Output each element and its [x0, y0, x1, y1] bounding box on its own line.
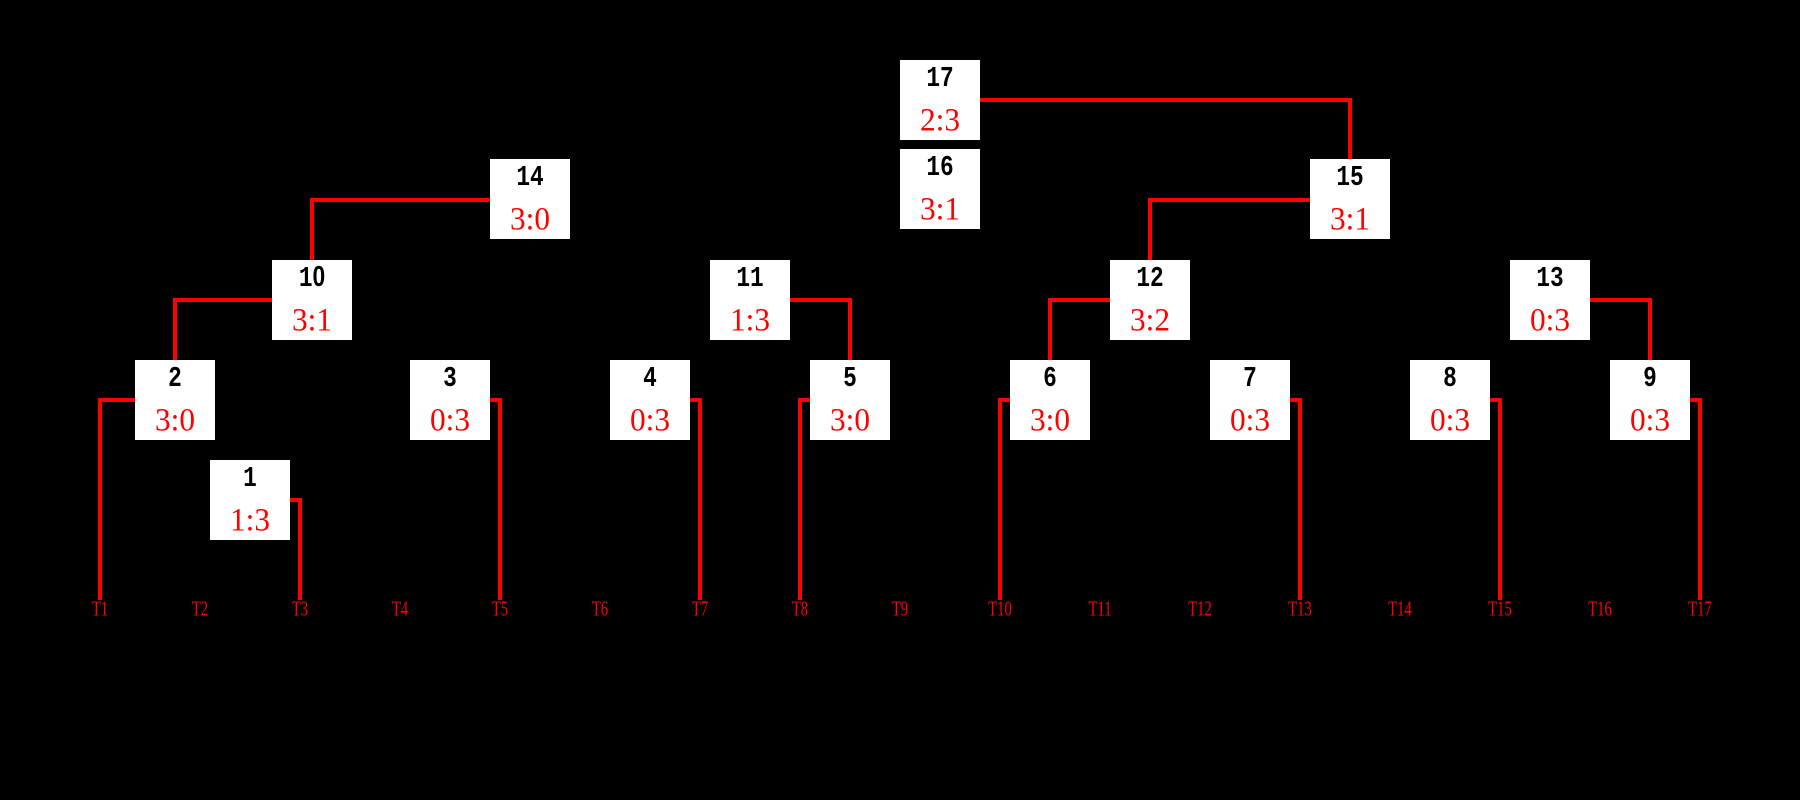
wire match11 to match5 vertical — [848, 298, 852, 360]
match box 8 — [1410, 360, 1490, 440]
wire match2 to T1 vertical — [98, 398, 102, 600]
svg-text:T11: T11 — [1088, 597, 1111, 620]
svg-text:10: 10 — [299, 262, 325, 295]
wire match9 to T17 horizontal — [1690, 398, 1702, 402]
svg-text:T12: T12 — [1188, 597, 1212, 620]
svg-text:7: 7 — [1243, 363, 1257, 395]
wire match5 to T8 vertical — [798, 398, 802, 600]
wire match6 to T10 horizontal — [998, 398, 1010, 402]
match box 15 — [1310, 159, 1390, 239]
svg-text:9: 9 — [1643, 363, 1657, 395]
match box 7 — [1210, 360, 1290, 440]
svg-text:14: 14 — [516, 162, 543, 194]
svg-text:8: 8 — [1443, 363, 1457, 395]
wire match14 to match10 vertical — [310, 198, 314, 260]
match box 16 — [900, 149, 980, 229]
wire match2 to T1 horizontal — [98, 398, 135, 402]
match box 12 — [1110, 260, 1190, 340]
svg-text:3:0: 3:0 — [830, 401, 870, 438]
svg-text:T1: T1 — [92, 597, 108, 620]
svg-text:3:1: 3:1 — [920, 190, 960, 227]
match box 4 — [610, 360, 690, 440]
wire match14 to match10 horizontal — [310, 198, 490, 202]
svg-text:0:3: 0:3 — [430, 401, 470, 438]
wire match12 to match6 horizontal — [1048, 298, 1110, 302]
svg-text:2:3: 2:3 — [920, 101, 960, 138]
svg-text:3:1: 3:1 — [1330, 200, 1370, 237]
svg-text:3:1: 3:1 — [292, 301, 332, 338]
match box 14 — [490, 159, 570, 239]
svg-text:0:3: 0:3 — [630, 401, 670, 438]
svg-text:T9: T9 — [892, 597, 908, 620]
wire match13 to match9 vertical — [1648, 298, 1652, 360]
svg-text:T10: T10 — [988, 597, 1012, 620]
match box 17 — [900, 60, 980, 140]
svg-text:11: 11 — [736, 263, 763, 295]
svg-text:T4: T4 — [392, 597, 408, 620]
match box 9 — [1610, 360, 1690, 440]
svg-text:3:0: 3:0 — [155, 401, 195, 438]
svg-text:3:2: 3:2 — [1130, 301, 1170, 338]
svg-text:17: 17 — [926, 63, 953, 95]
wire match4 to T7 horizontal — [690, 398, 702, 402]
svg-text:T2: T2 — [192, 597, 208, 620]
wire match3 to T5 vertical — [498, 398, 502, 600]
wire match5 to T8 horizontal — [798, 398, 810, 402]
wire match4 to T7 vertical — [698, 398, 702, 600]
svg-text:T6: T6 — [592, 597, 608, 620]
wire match1 to T3 vertical — [298, 498, 302, 600]
svg-text:T3: T3 — [292, 597, 308, 620]
wire match13 to match9 horizontal — [1590, 298, 1652, 302]
match box 2 — [135, 360, 215, 440]
svg-text:5: 5 — [843, 363, 857, 395]
svg-text:1:3: 1:3 — [230, 501, 270, 538]
svg-text:0:3: 0:3 — [1230, 401, 1270, 438]
svg-text:0:3: 0:3 — [1430, 401, 1470, 438]
wire match15 to match12 vertical — [1148, 198, 1152, 260]
wire match15 to match12 horizontal — [1148, 198, 1310, 202]
svg-text:T17: T17 — [1688, 597, 1712, 620]
match box 6 — [1010, 360, 1090, 440]
wire match3 to T5 horizontal — [490, 398, 502, 402]
svg-text:T15: T15 — [1488, 597, 1512, 620]
svg-text:T16: T16 — [1588, 597, 1612, 620]
wire match8 to T15 horizontal — [1490, 398, 1502, 402]
wire match12 to match6 vertical — [1048, 298, 1052, 360]
match box 10 — [272, 260, 352, 340]
match box 1 — [210, 460, 290, 540]
svg-text:6: 6 — [1043, 363, 1057, 395]
svg-text:13: 13 — [1536, 263, 1563, 295]
match box 11 — [710, 260, 790, 340]
match box 5 — [810, 360, 890, 440]
svg-text:16: 16 — [926, 152, 953, 184]
svg-text:4: 4 — [643, 363, 657, 395]
svg-text:1:3: 1:3 — [730, 301, 770, 338]
svg-text:0:3: 0:3 — [1530, 301, 1570, 338]
svg-text:1: 1 — [243, 463, 257, 495]
wire match11 to match5 horizontal — [790, 298, 852, 302]
svg-text:3: 3 — [443, 363, 457, 395]
svg-text:T5: T5 — [492, 597, 508, 620]
svg-text:T14: T14 — [1388, 597, 1412, 620]
wire match17 to match15 horizontal — [980, 98, 1352, 102]
wire match17 to match15 vertical — [1348, 98, 1352, 159]
wire match10 to match2 horizontal — [173, 298, 272, 302]
wire match7 to T13 vertical — [1298, 398, 1302, 600]
svg-text:3:0: 3:0 — [510, 200, 550, 237]
wire match9 to T17 vertical — [1698, 398, 1702, 600]
svg-text:T8: T8 — [792, 597, 808, 620]
svg-text:15: 15 — [1336, 162, 1363, 194]
wire match6 to T10 vertical — [998, 398, 1002, 600]
wire match10 to match2 vertical — [173, 298, 177, 360]
match box 3 — [410, 360, 490, 440]
wire match7 to T13 horizontal — [1290, 398, 1302, 402]
svg-text:0:3: 0:3 — [1630, 401, 1670, 438]
svg-text:T13: T13 — [1288, 597, 1312, 620]
svg-text:2: 2 — [168, 363, 182, 395]
svg-text:T7: T7 — [692, 597, 708, 620]
wire match1 to T3 horizontal — [290, 498, 302, 502]
svg-text:3:0: 3:0 — [1030, 401, 1070, 438]
match box 13 — [1510, 260, 1590, 340]
wire match8 to T15 vertical — [1498, 398, 1502, 600]
svg-text:12: 12 — [1136, 263, 1163, 295]
